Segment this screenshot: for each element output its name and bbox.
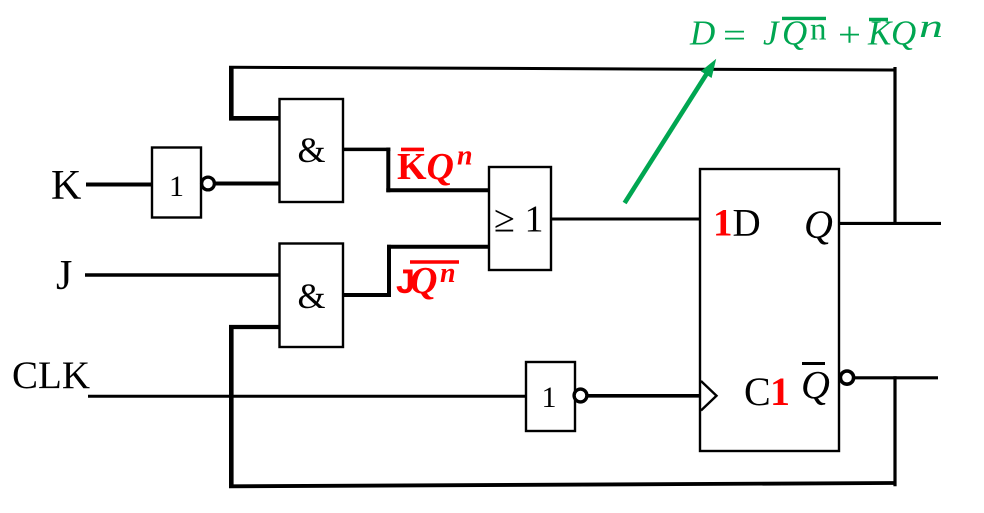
svg-text:Q: Q: [427, 146, 454, 188]
svg-text:&: &: [297, 276, 325, 316]
svg-text:n: n: [919, 9, 943, 45]
svg-text:K: K: [397, 146, 427, 188]
svg-text:1: 1: [169, 170, 184, 203]
svg-text:Q: Q: [801, 363, 830, 408]
svg-text:n: n: [810, 11, 827, 47]
svg-text:J: J: [56, 253, 72, 299]
svg-text:=: =: [723, 16, 746, 55]
svg-text:≥: ≥: [494, 199, 515, 241]
svg-text:n: n: [440, 258, 456, 289]
svg-text:1: 1: [770, 369, 790, 414]
svg-text:Q: Q: [410, 260, 437, 302]
svg-text:C: C: [744, 369, 771, 414]
svg-text:D: D: [689, 14, 715, 53]
svg-text:J: J: [763, 14, 780, 53]
svg-text:1: 1: [542, 381, 557, 414]
svg-text:CLK: CLK: [12, 354, 90, 397]
svg-text:Q: Q: [804, 202, 833, 247]
svg-text:1: 1: [525, 199, 544, 241]
svg-text:1D: 1D: [713, 202, 761, 245]
svg-text:K: K: [867, 14, 893, 53]
svg-text:Q: Q: [891, 14, 916, 53]
svg-text:n: n: [457, 141, 473, 172]
svg-text:K: K: [51, 163, 81, 209]
svg-text:+: +: [838, 16, 861, 55]
svg-text:&: &: [297, 130, 325, 170]
